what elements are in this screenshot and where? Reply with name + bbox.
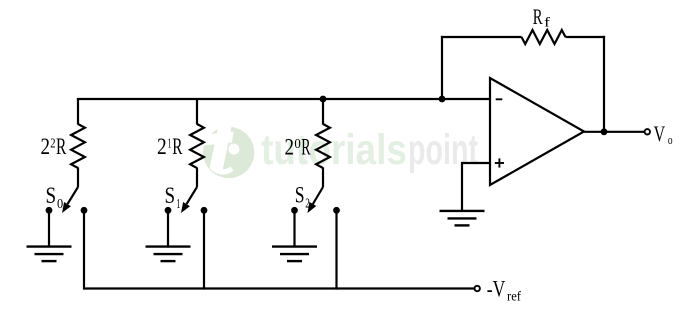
svg-text:point: point bbox=[408, 126, 478, 174]
svg-text:0: 0 bbox=[294, 136, 301, 151]
svg-text:2: 2 bbox=[157, 134, 167, 159]
svg-text:ref: ref bbox=[507, 289, 521, 304]
svg-text:1: 1 bbox=[168, 136, 172, 151]
svg-text:R: R bbox=[301, 135, 311, 160]
svg-text:1: 1 bbox=[176, 196, 180, 211]
svg-text:R: R bbox=[56, 134, 67, 159]
svg-text:f: f bbox=[544, 15, 551, 30]
svg-text:o: o bbox=[668, 133, 673, 147]
svg-text:2: 2 bbox=[305, 196, 310, 211]
svg-text:-V: -V bbox=[487, 277, 506, 303]
svg-text:tutorials: tutorials bbox=[261, 126, 407, 174]
svg-text:0: 0 bbox=[57, 196, 63, 211]
svg-text:S: S bbox=[165, 183, 176, 208]
svg-text:S: S bbox=[46, 183, 57, 208]
svg-text:2: 2 bbox=[50, 136, 55, 151]
svg-text:2: 2 bbox=[41, 134, 51, 159]
svg-text:2: 2 bbox=[285, 135, 295, 160]
svg-text:R: R bbox=[172, 134, 183, 159]
svg-text:V: V bbox=[654, 121, 666, 146]
svg-text:R: R bbox=[533, 4, 543, 29]
svg-text:S: S bbox=[295, 183, 305, 208]
